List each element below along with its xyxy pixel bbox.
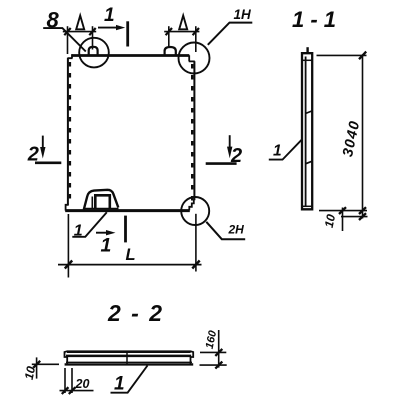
svg-text:1: 1 xyxy=(273,143,282,160)
svg-text:3040: 3040 xyxy=(340,119,363,159)
delta dimension top-left: dimension line xyxy=(63,31,96,33)
section cut 2 left: arrow shaft xyxy=(42,136,44,148)
lifting loop top-right xyxy=(165,47,176,56)
section 2-2 dimension 20: tick left xyxy=(62,387,69,394)
section 2-2 slab: left end profile xyxy=(65,351,68,365)
section 2-2 dimension 160: tick upper xyxy=(215,349,222,356)
panel outline (plan) bottom-right corner staircase xyxy=(189,200,194,211)
section 2-2 slab: right end profile xyxy=(190,351,193,365)
delta dimension top-left: tick left xyxy=(64,28,70,35)
panel outline (plan) top-right corner step xyxy=(189,55,195,61)
section 2-2 slab: middle joint xyxy=(126,352,128,364)
section 1-1 leader 1 xyxy=(269,139,302,159)
section 1-1 dimension 3040: tick top xyxy=(359,52,366,60)
delta dimension top-left: tick right xyxy=(89,28,95,35)
panel outline (plan) left edge xyxy=(67,58,69,205)
dashed inner line left edge xyxy=(69,62,71,203)
leader 1 to recessed loop xyxy=(72,212,107,237)
detail circle top-left xyxy=(79,38,109,68)
section 2-2 dimension 160: extension line lower xyxy=(200,364,227,366)
section 1-1 bottom extension line upper xyxy=(319,210,367,212)
section 1-1 lifting loop stub on top xyxy=(306,47,308,53)
lifting loop top-left xyxy=(89,47,98,56)
svg-text:1H: 1H xyxy=(234,7,252,22)
delta dimension top-right: extension line right xyxy=(195,26,197,52)
delta dimension top-right: extension line left xyxy=(168,26,170,47)
recessed lifting loop base line xyxy=(84,208,119,210)
svg-text:1 - 1: 1 - 1 xyxy=(292,7,336,32)
svg-text:20: 20 xyxy=(75,377,90,391)
recessed lifting loop inner left line xyxy=(91,197,93,209)
section 1-1 panel: outer outline xyxy=(302,53,312,209)
svg-text:1: 1 xyxy=(74,223,83,240)
section 2-2 dimension 160: extension line upper xyxy=(200,351,226,353)
svg-text:L: L xyxy=(126,246,136,264)
section 1-1 panel: joint tick upper xyxy=(306,111,312,114)
section cut 2 right: arrow shaft xyxy=(229,135,231,147)
section cut 1 bottom: arrow xyxy=(96,232,107,234)
section 2-2 slab: top line xyxy=(67,350,191,353)
recessed lifting loop inner rectangle xyxy=(95,195,110,208)
section cut 1 top: arrow xyxy=(98,27,117,29)
detail circle top-right (node 1H) xyxy=(179,43,210,74)
section 2-2 slab: second line xyxy=(66,355,191,358)
section 2-2 slab: bottom inner line xyxy=(66,361,192,363)
delta dimension top-left: extension line right xyxy=(92,26,94,49)
svg-text:2 - 2: 2 - 2 xyxy=(107,300,164,326)
dimension L: extension line right xyxy=(195,214,197,272)
section 2-2 dimension 10: extension line xyxy=(32,363,59,365)
panel outline (plan) top-left corner step xyxy=(68,54,73,58)
dimension L: dimension line xyxy=(58,264,202,266)
dimension L: extension line left xyxy=(67,214,69,278)
section 1-1 dimension 10: tick on main line lower xyxy=(359,213,366,220)
delta dimension top-right: label xyxy=(179,16,187,30)
section 2-2 dimension 10: tick xyxy=(33,361,40,368)
section 2-2 leader 1 xyxy=(111,366,148,393)
section 1-1 dimension 10: tick upper xyxy=(339,207,346,214)
delta dimension top-left: extension line left xyxy=(67,26,69,54)
svg-text:8: 8 xyxy=(47,7,60,32)
section cut 1 bottom: trace bar xyxy=(124,216,127,243)
section 1-1 dimension 3040: top extension line xyxy=(317,54,367,56)
section 2-2 dimension 20: tick right xyxy=(69,387,76,394)
svg-text:1: 1 xyxy=(104,5,115,26)
section cut 1 top: trace bar xyxy=(126,21,129,46)
callout leader 1H xyxy=(208,23,253,45)
section 2-2 dimension 20: extension line right xyxy=(71,368,73,393)
dashed inner line right edge xyxy=(191,64,193,203)
detail circle bottom-right (node 2H) xyxy=(181,197,209,225)
section 1-1 panel: bottom cap xyxy=(302,205,312,207)
svg-text:1: 1 xyxy=(114,374,125,395)
dimension L: tick right xyxy=(192,261,199,269)
section 2-2 dimension 10: dimension line xyxy=(36,357,38,378)
svg-text:10: 10 xyxy=(322,213,339,229)
section 2-2 dimension 20: extension line left xyxy=(64,368,66,393)
delta dimension top-right: tick right xyxy=(193,28,199,35)
section 2-2 dimension 160: dimension line xyxy=(218,330,220,368)
section 1-1 dimension 10: dimension line xyxy=(342,208,344,232)
svg-text:1: 1 xyxy=(101,235,112,257)
section 2-2 dimension 160: tick lower xyxy=(215,362,222,369)
section 1-1 panel: joint tick lower xyxy=(306,161,312,164)
section 1-1 bottom extension line lower xyxy=(341,216,368,218)
panel outline (plan) right edge xyxy=(193,61,195,200)
section 2-2 dimension 20: dimension line xyxy=(60,390,94,392)
section 1-1 dimension 10: tick on main line upper xyxy=(359,207,366,214)
svg-text:2H: 2H xyxy=(228,223,245,237)
section cut 2 left: trace bar xyxy=(35,162,61,165)
dimension L: tick left xyxy=(65,261,72,269)
section 1-1 dimension 3040: dimension line xyxy=(362,55,364,219)
recessed lifting loop (dome) bottom xyxy=(84,190,119,210)
panel outline (plan) bottom edge xyxy=(65,209,190,212)
section 1-1 panel: left wall inner line xyxy=(305,57,307,207)
delta dimension top-right: dimension line xyxy=(164,31,199,33)
svg-text:160: 160 xyxy=(204,329,220,350)
delta dimension top-right: tick left xyxy=(166,28,172,35)
section 1-1 panel: top joint line xyxy=(302,59,311,61)
delta dimension top-left: label xyxy=(76,16,84,30)
panel outline (plan) top edge xyxy=(72,54,190,57)
weld label 8 leader xyxy=(43,28,86,51)
section cut 2 right: trace bar xyxy=(206,162,237,165)
callout leader 2H xyxy=(206,222,245,239)
section 2-2 slab: bottom line xyxy=(65,363,194,365)
panel outline (plan) bottom-left corner step xyxy=(66,205,69,211)
